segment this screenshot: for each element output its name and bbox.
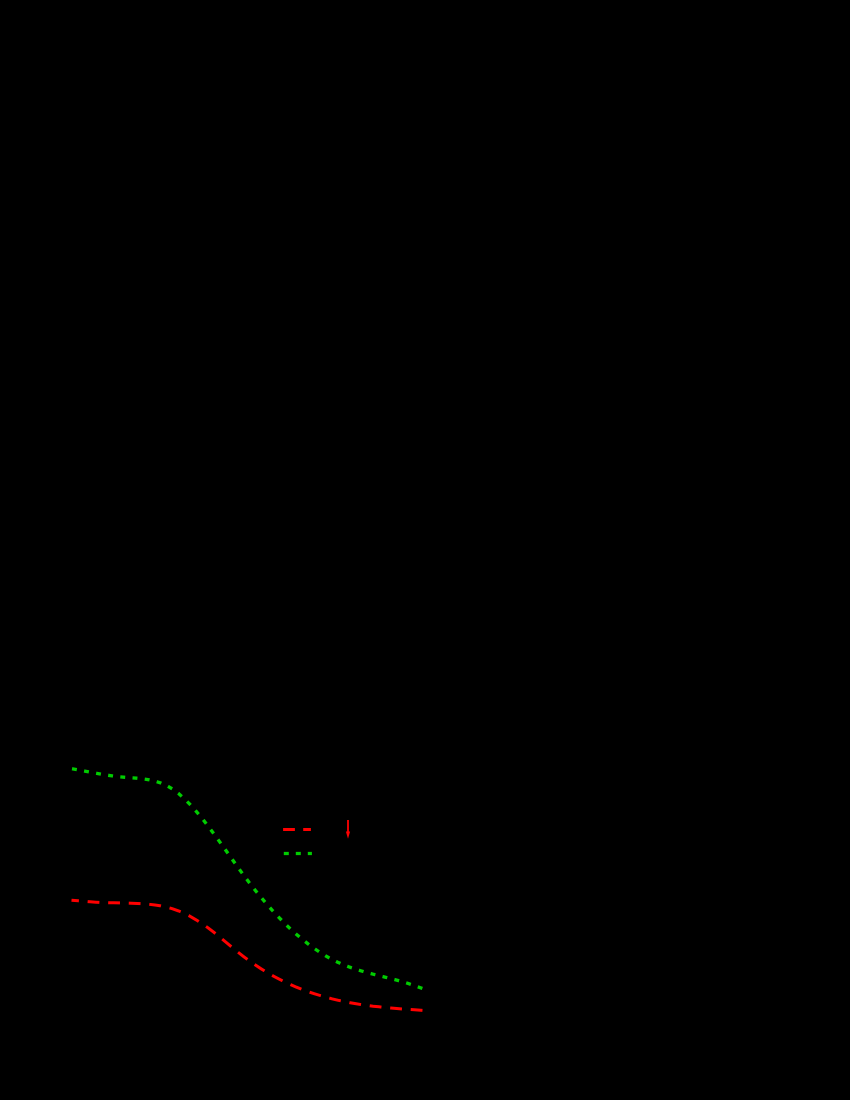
green dotted curve <box>72 769 423 989</box>
red annotation arrow head <box>346 832 350 839</box>
red dashed curve <box>72 900 423 1010</box>
red annotation arrow shaft <box>347 820 349 834</box>
legend green dot sample <box>284 852 312 855</box>
legend red dash sample <box>283 828 311 831</box>
